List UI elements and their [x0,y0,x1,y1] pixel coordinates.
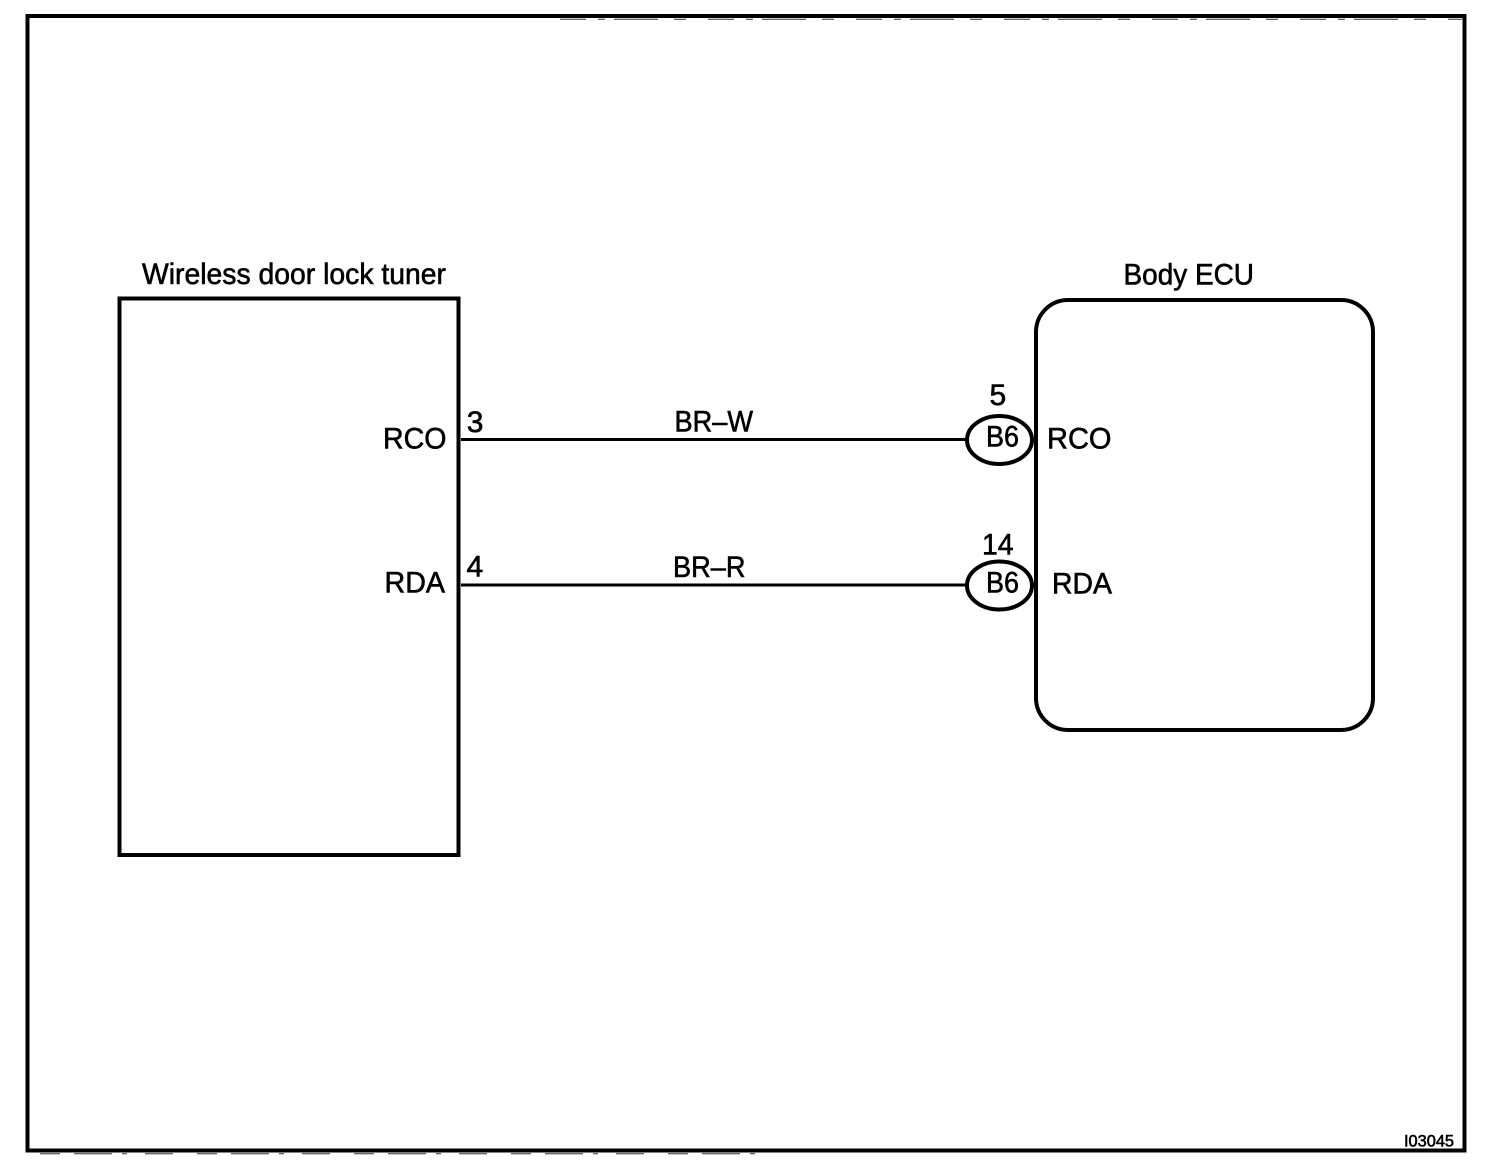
svg-text:BR–R: BR–R [673,551,746,584]
svg-text:14: 14 [982,529,1014,562]
connector oval B6 (RCO) [967,416,1032,464]
svg-text:B6: B6 [986,421,1019,454]
svg-text:Wireless door lock tuner: Wireless door lock tuner [142,258,446,291]
svg-text:RCO: RCO [1047,423,1112,456]
svg-text:RDA: RDA [1052,568,1112,601]
svg-text:3: 3 [467,406,484,439]
svg-text:Body ECU: Body ECU [1124,259,1255,292]
svg-text:RCO: RCO [383,423,447,456]
component box: wireless door lock tuner [120,299,459,856]
wire BR-W [461,438,967,441]
svg-text:B6: B6 [986,567,1019,600]
svg-text:4: 4 [467,551,484,584]
connector oval B6 (RDA) [967,562,1032,610]
svg-text:5: 5 [990,379,1007,412]
component box: Body ECU [1036,300,1373,730]
svg-text:RDA: RDA [385,567,446,600]
wire BR-R [461,584,967,587]
svg-text:BR–W: BR–W [675,405,754,438]
svg-text:I03045: I03045 [1404,1131,1454,1150]
